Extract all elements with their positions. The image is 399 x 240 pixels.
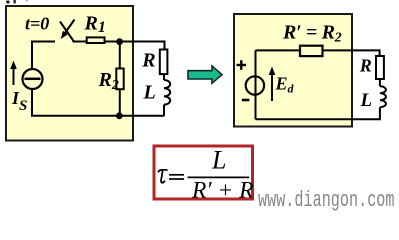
wire: junction to R2	[119, 42, 121, 68]
current source Is circle	[23, 69, 43, 89]
wire: R to L coil	[163, 74, 165, 80]
formula fraction bar	[188, 176, 250, 178]
Is direction arrow	[10, 61, 17, 86]
wire: R1 to right branch corner	[106, 41, 165, 43]
wire: current source to bottom corner	[31, 90, 33, 116]
wire: right branch top corner down to R	[164, 41, 166, 49]
svg-text:www.diangon.com: www.diangon.com	[258, 188, 395, 212]
svg-text:R′ = R2: R′ = R2	[282, 22, 342, 46]
bottom wire left circuit	[31, 115, 165, 117]
switch S (open, with motion arrow)	[60, 20, 75, 42]
formula box (red)	[154, 146, 253, 199]
svg-text:R: R	[359, 56, 372, 76]
svg-text:L: L	[211, 146, 226, 175]
wire: R' to right branch	[324, 50, 380, 56]
top wire: left corner to R'	[256, 49, 300, 51]
svg-text:L: L	[360, 90, 373, 111]
minus sign	[242, 99, 250, 102]
wire: R2 to bottom junction	[119, 90, 121, 116]
plus sign	[237, 60, 247, 70]
wire: L coil to bottom wire	[163, 105, 165, 116]
wire: R to L (right circuit)	[379, 79, 381, 86]
formula tau =	[158, 170, 167, 172]
wire: L to bottom right corner	[256, 107, 380, 119]
left circuit panel	[6, 6, 133, 141]
svg-text:R: R	[141, 49, 155, 71]
inductor L (left circuit)	[164, 80, 170, 105]
svg-text:L: L	[143, 81, 156, 103]
resistor R1	[87, 37, 105, 43]
junction node bottom	[116, 112, 123, 119]
switch arrowhead	[61, 31, 68, 39]
svg-text:R′ + R: R′ + R	[191, 177, 253, 203]
left wire right circuit	[255, 50, 257, 119]
transform arrow (green)	[188, 66, 222, 83]
cropped text remnants top edge	[6, 0, 27, 4]
inductor L (right circuit)	[380, 86, 386, 107]
wire: left top corner to switch left contact	[32, 42, 55, 70]
voltage source Ed circle	[246, 76, 264, 94]
resistor R2	[116, 69, 123, 90]
resistor R (left circuit)	[160, 50, 168, 75]
resistor R'	[300, 46, 323, 56]
wire: switch to R1	[73, 41, 87, 43]
svg-text:t=0: t=0	[25, 14, 49, 34]
right circuit panel	[234, 14, 352, 127]
Ed direction arrow	[269, 67, 276, 102]
resistor R (right circuit)	[376, 56, 384, 79]
junction node top	[116, 38, 123, 45]
current source bar	[25, 78, 41, 81]
